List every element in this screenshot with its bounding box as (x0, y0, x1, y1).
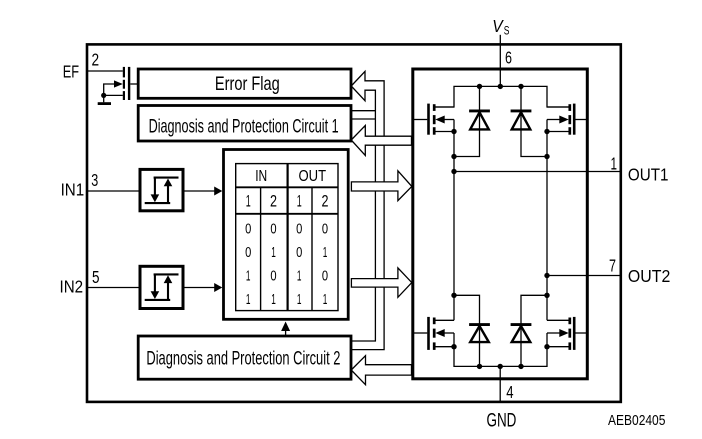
diode D2 triangle (512, 112, 531, 129)
svg-text:0: 0 (270, 268, 276, 284)
Diagnosis and Protection Circuit 2 block (138, 336, 351, 379)
svg-text:4: 4 (506, 382, 513, 402)
node: rail-D4 (518, 364, 523, 369)
diode D2 through wire to right node (521, 86, 547, 156)
transistor Q4 (low-side right) channel bar (568, 318, 571, 350)
svg-text:2: 2 (322, 191, 329, 210)
diode D4 cathode bar (511, 323, 532, 326)
svg-text:1: 1 (323, 245, 328, 261)
bus arrow U-shaped: from Diagnosis 2 up and into Error Flag (hollow) (351, 71, 384, 349)
transistor Q1 (high-side left) channel bar (433, 104, 436, 135)
wire IN2 pin to ST2 (87, 287, 140, 289)
OUT2 rail to pin 7 (547, 275, 621, 277)
node: Q5 source-body junction (101, 93, 106, 98)
svg-text:IN: IN (255, 168, 267, 185)
transistor Q5 gate lead to Error Flag (130, 83, 138, 85)
GND wire pin 4 (499, 366, 501, 402)
node: D2 anode junction (544, 154, 549, 159)
node: Q3 source-body (451, 344, 456, 349)
svg-text:1: 1 (271, 245, 276, 261)
svg-text:IN1: IN1 (61, 180, 85, 200)
svg-text:0: 0 (322, 268, 328, 284)
svg-text:0: 0 (245, 222, 251, 238)
diode D3 triangle (470, 326, 489, 342)
diode D1 through wire to left node (454, 86, 480, 156)
node: rail-GND (498, 364, 503, 369)
svg-text:2: 2 (92, 50, 100, 70)
OUT1 rail to pin 1 (454, 171, 621, 173)
transistor Q3 (low-side left) gate bar (427, 317, 430, 350)
bottom ground rail with source elbows (454, 347, 547, 367)
transistor Q1 (high-side left) body arrow (435, 116, 444, 124)
wire left node column (OUT1 side) (453, 132, 455, 321)
svg-text:7: 7 (609, 256, 616, 276)
svg-text:1: 1 (297, 292, 302, 308)
outer IC boundary box (87, 44, 621, 402)
transistor Q2 (high-side right) body arrow (559, 116, 568, 124)
svg-text:S: S (504, 26, 510, 38)
transistor Q4 (low-side right) body arrow (559, 329, 568, 337)
wire EF pin to transistor drain (87, 70, 123, 72)
diode D2 cathode bar (511, 109, 532, 112)
transistor Q3 (low-side left) body arrow (435, 329, 444, 337)
node: OUT2 junction (544, 273, 549, 278)
transistor Q5 body/source wires (104, 84, 123, 95)
diode D4 triangle (512, 326, 531, 342)
truth table inner grid (236, 164, 338, 311)
diode D1 cathode bar (469, 109, 490, 112)
svg-text:1: 1 (297, 268, 302, 284)
diode D1 triangle (470, 112, 489, 129)
node: rail-diode D2 (518, 84, 523, 89)
node: D1 anode junction (451, 154, 456, 159)
Schmitt trigger ST2 box (140, 266, 183, 308)
node: Q4 source-body (544, 344, 549, 349)
svg-text:0: 0 (296, 222, 302, 238)
transistor Q2 (high-side right) channel bar (568, 104, 571, 135)
diode D3 through wire to left node (454, 295, 480, 366)
transistor Q4 (low-side right) gate lead (575, 332, 587, 334)
svg-text:3: 3 (91, 170, 98, 190)
top supply rail with drain elbows (435, 86, 568, 107)
transistor Q2 (high-side right) gate lead (575, 119, 587, 121)
diode D4 through wire to right node (521, 295, 547, 366)
Schmitt trigger ST1 hysteresis symbol (145, 178, 179, 204)
Schmitt trigger ST1 box (140, 169, 183, 210)
wire ST2 to truth table with arrowhead (183, 283, 222, 292)
Diagnosis and Protection Circuit 1 block (138, 106, 351, 142)
truth table data digits (245, 222, 328, 308)
node: rail-D3 (477, 364, 482, 369)
transistor Q1 (high-side left) gate lead (413, 119, 428, 121)
hollow arrow from bridge into Diagnosis 2 (351, 356, 411, 385)
svg-text:OUT: OUT (299, 168, 327, 185)
node: rail-VS (498, 84, 503, 89)
transistor Q4 (low-side right) drain/body/source wires (547, 320, 569, 346)
hollow arrow gate-drive upper: truth table to bridge (351, 171, 411, 201)
transistor Q3 (low-side left) channel bar (433, 318, 436, 350)
transistor Q3 (low-side left) drain/body/source wires (435, 320, 454, 346)
wire right node column (OUT2 side) (546, 132, 548, 321)
arrow from Diagnosis 2 up into truth table (281, 322, 290, 337)
truth table header IN / OUT (255, 168, 326, 185)
svg-text:0: 0 (322, 222, 328, 238)
svg-text:2: 2 (270, 191, 277, 210)
transistor Q3 (low-side left) gate lead (413, 332, 428, 334)
power output stage (bridge) box (413, 69, 588, 379)
wire IN1 pin to ST1 (87, 190, 140, 192)
wire ST1 to truth table with arrowhead (183, 187, 222, 196)
VS supply wire pin 6 (499, 35, 501, 87)
transistor Q5 open-drain error-flag output (channel bar segments) (123, 67, 125, 100)
node: Q1 source-body (451, 129, 456, 134)
svg-text:1: 1 (246, 268, 251, 284)
node: OUT1 junction (451, 169, 456, 174)
node: rail-diode D1 (477, 84, 482, 89)
transistor Q1 (high-side left) gate bar (427, 104, 430, 135)
hollow arrow gate-drive lower: truth table to bridge (351, 268, 411, 297)
Error Flag block (138, 69, 351, 98)
bus branch from Diagnosis 1 merging into Error Flag arrow (hollow elbow) (351, 111, 376, 119)
svg-text:Diagnosis and Protection Circu: Diagnosis and Protection Circuit 1 (149, 116, 339, 138)
Schmitt trigger ST2 hysteresis symbol (145, 274, 179, 300)
svg-text:IN2: IN2 (60, 276, 84, 296)
svg-text:AEB02405: AEB02405 (608, 412, 665, 429)
svg-text:OUT1: OUT1 (628, 165, 669, 185)
truth table outer box (224, 150, 349, 320)
svg-text:EF: EF (63, 62, 79, 82)
node: Q2 source-body (544, 129, 549, 134)
svg-text:GND: GND (487, 411, 517, 432)
svg-text:OUT2: OUT2 (628, 266, 670, 286)
transistor Q5 gate bar (128, 67, 130, 100)
svg-text:1: 1 (271, 292, 276, 308)
svg-text:6: 6 (505, 48, 512, 68)
truth table header 1 2 1 2 (246, 191, 329, 210)
svg-text:1: 1 (611, 154, 618, 174)
transistor Q5 body arrow (114, 80, 123, 87)
transistor Q2 (high-side right) drain/body/source wires (547, 107, 569, 132)
svg-text:1: 1 (246, 191, 251, 210)
svg-text:1: 1 (323, 292, 328, 308)
transistor Q2 (high-side right) gate bar (573, 104, 576, 135)
svg-text:0: 0 (296, 245, 302, 261)
node: D3 cathode junction (451, 293, 456, 298)
svg-text:0: 0 (245, 245, 251, 261)
diode D3 cathode bar (469, 323, 490, 326)
svg-text:Diagnosis and Protection Circu: Diagnosis and Protection Circuit 2 (146, 348, 340, 370)
ground (98, 95, 111, 103)
transistor Q4 (low-side right) gate bar (573, 317, 576, 350)
node: D4 cathode junction (544, 293, 549, 298)
svg-text:0: 0 (270, 222, 276, 238)
svg-text:5: 5 (92, 267, 100, 287)
svg-text:1: 1 (297, 191, 302, 210)
hollow arrow from bridge into Diagnosis 1 (351, 126, 411, 156)
svg-text:1: 1 (246, 292, 251, 308)
svg-text:Error Flag: Error Flag (215, 73, 280, 95)
transistor Q1 (high-side left) drain/body/source wires (435, 107, 454, 132)
